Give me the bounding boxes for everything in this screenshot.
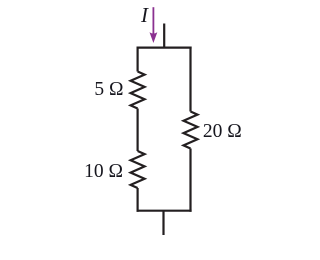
svg-text:I: I [140,3,149,27]
wire right upper [189,47,191,112]
resistor 10 ohm [131,151,145,188]
svg-text:20 Ω: 20 Ω [203,121,242,142]
svg-text:10 Ω: 10 Ω [84,161,123,182]
wire top horizontal [137,46,192,48]
svg-text:5 Ω: 5 Ω [94,79,123,100]
wire left upper [137,47,139,72]
wire left middle [137,109,139,152]
current arrow (purple) [150,7,158,43]
resistor 5 ohm [131,72,145,109]
resistor 20 ohm [184,112,198,149]
wire top lead [163,24,165,48]
wire left lower [137,188,139,212]
wire bottom lead [162,211,164,235]
wire right lower [189,149,191,212]
wire bottom horizontal [137,210,192,212]
